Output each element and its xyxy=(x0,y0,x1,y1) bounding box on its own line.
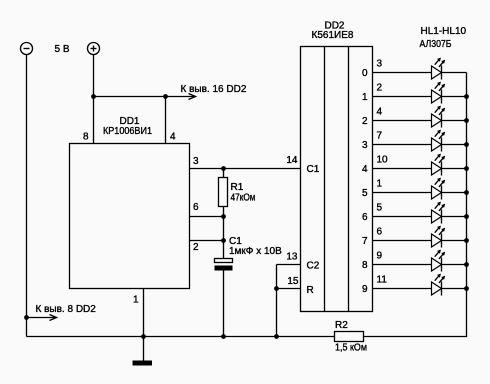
output 1 row wire (pin 2) xyxy=(373,96,432,98)
node junction LED9 bus xyxy=(464,262,469,267)
LED HL6 xyxy=(432,178,446,200)
output 5 row wire (pin 1) xyxy=(373,192,432,194)
svg-text:2: 2 xyxy=(377,83,383,94)
wire bottom ground bus xyxy=(27,336,335,338)
LED HL1 xyxy=(432,58,446,80)
wire LED cathode bus vertical xyxy=(364,73,467,337)
svg-text:13: 13 xyxy=(286,252,298,263)
svg-text:1,5 кОм: 1,5 кОм xyxy=(335,343,367,354)
node junction LED3 bus xyxy=(464,118,469,123)
wire arrow to pin 8 DD2 xyxy=(27,315,57,321)
svg-text:1: 1 xyxy=(133,295,139,306)
node junction pin2 C1 top xyxy=(221,238,226,243)
node junction LED8 bus xyxy=(464,238,469,243)
output 3 row wire (pin 7) xyxy=(373,144,432,146)
node junction pin1 ground bus xyxy=(141,334,146,339)
wire plus terminal to top node xyxy=(93,55,95,97)
svg-text:6: 6 xyxy=(193,202,199,213)
svg-text:8: 8 xyxy=(362,260,368,271)
wire pin 6 lead xyxy=(190,216,224,218)
svg-text:8: 8 xyxy=(83,132,89,143)
resistor R1 xyxy=(219,169,228,217)
resistor R2 xyxy=(335,332,364,342)
node junction pin6 R1 bottom xyxy=(221,214,226,219)
wire C2-R to ground bus xyxy=(276,265,278,337)
wire R1 bottom to C1 xyxy=(223,217,225,259)
node junction LED6 bus xyxy=(464,190,469,195)
svg-text:КР1006ВИ1: КР1006ВИ1 xyxy=(103,126,152,137)
node junction LED2 bus xyxy=(464,94,469,99)
wire pin 4 lead xyxy=(165,97,167,144)
svg-text:6: 6 xyxy=(362,212,368,223)
svg-text:2: 2 xyxy=(193,242,199,253)
wire pin 8 lead xyxy=(93,97,95,144)
wire LED1 cathode to bus xyxy=(442,72,467,74)
wire LED5 cathode to bus xyxy=(442,168,467,170)
node junction LED7 bus xyxy=(464,214,469,219)
node junction Vcc pin4 xyxy=(163,94,168,99)
ground symbol xyxy=(133,337,153,366)
LED HL4 xyxy=(432,130,446,152)
svg-text:R: R xyxy=(307,285,314,296)
node junction C2 R xyxy=(274,286,279,291)
node junction Vcc pin8 xyxy=(91,94,96,99)
svg-text:7: 7 xyxy=(377,131,383,142)
svg-text:1мкФ х 10В: 1мкФ х 10В xyxy=(229,246,282,257)
LED HL10 xyxy=(432,274,446,296)
svg-text:3: 3 xyxy=(362,140,368,151)
LED HL8 xyxy=(432,226,446,248)
capacitor C1 polarized xyxy=(215,259,233,337)
svg-text:R2: R2 xyxy=(335,320,348,331)
wire top horizontal Vcc xyxy=(94,96,166,98)
svg-text:HL1-HL10: HL1-HL10 xyxy=(421,26,467,37)
LED HL7 xyxy=(432,202,446,224)
svg-text:0: 0 xyxy=(362,68,368,79)
node junction LED10 bus xyxy=(464,286,469,291)
svg-text:2: 2 xyxy=(362,116,368,127)
svg-text:3: 3 xyxy=(193,156,199,167)
svg-text:К выв. 16 DD2: К выв. 16 DD2 xyxy=(181,84,247,95)
output 2 row wire (pin 4) xyxy=(373,120,432,122)
svg-text:9: 9 xyxy=(362,284,368,295)
svg-text:6: 6 xyxy=(377,227,383,238)
counter chip DD2 K561IE8 (4017) xyxy=(301,47,373,312)
svg-text:9: 9 xyxy=(377,251,383,262)
svg-text:15: 15 xyxy=(287,276,299,287)
svg-text:1: 1 xyxy=(377,179,383,190)
wire pin 13 lead xyxy=(277,264,301,266)
node junction pin3 R1 xyxy=(221,166,226,171)
svg-text:11: 11 xyxy=(377,275,388,286)
wire arrow to pin 16 DD2 xyxy=(166,94,196,100)
LED HL9 xyxy=(432,250,446,272)
wire minus rail left vertical xyxy=(26,55,28,337)
node junction R ground bus xyxy=(274,334,279,339)
node junction left rail arrow xyxy=(24,315,29,320)
wire LED10 cathode to bus xyxy=(442,288,467,290)
node junction LED5 bus xyxy=(464,166,469,171)
svg-text:АЛ307Б: АЛ307Б xyxy=(420,39,452,50)
svg-text:1: 1 xyxy=(362,92,368,103)
wire pin 1 lead xyxy=(143,289,145,337)
svg-text:4: 4 xyxy=(362,164,368,175)
wire LED3 cathode to bus xyxy=(442,120,467,122)
svg-text:К выв. 8 DD2: К выв. 8 DD2 xyxy=(36,304,97,315)
node junction LED4 bus xyxy=(464,142,469,147)
op chip DD1 KR1006VI1 (555 timer) xyxy=(70,144,190,289)
wire LED2 cathode to bus xyxy=(442,96,467,98)
terminal XT1 minus xyxy=(21,43,33,55)
wire LED8 cathode to bus xyxy=(442,240,467,242)
wire LED7 cathode to bus xyxy=(442,216,467,218)
terminal XT2 plus xyxy=(88,43,100,55)
svg-text:3: 3 xyxy=(377,59,383,70)
svg-text:5: 5 xyxy=(362,188,368,199)
svg-text:5: 5 xyxy=(377,203,383,214)
output 0 row wire (pin 3) xyxy=(373,72,432,74)
svg-text:C1: C1 xyxy=(307,164,320,175)
LED HL5 xyxy=(432,154,446,176)
wire pin 2 lead xyxy=(190,240,224,242)
output 4 row wire (pin 10) xyxy=(373,168,432,170)
output 8 row wire (pin 9) xyxy=(373,264,432,266)
wire LED6 cathode to bus xyxy=(442,192,467,194)
wire LED4 cathode to bus xyxy=(442,144,467,146)
output 7 row wire (pin 6) xyxy=(373,240,432,242)
wire LED9 cathode to bus xyxy=(442,264,467,266)
node junction C1 ground bus xyxy=(221,334,226,339)
output 9 row wire (pin 11) xyxy=(373,288,432,290)
svg-text:C2: C2 xyxy=(307,261,320,272)
output 6 row wire (pin 5) xyxy=(373,216,432,218)
svg-text:R1: R1 xyxy=(231,182,244,193)
wire pin 3 lead xyxy=(190,168,301,170)
LED HL2 xyxy=(432,82,446,104)
svg-text:47кОм: 47кОм xyxy=(231,193,256,204)
svg-text:7: 7 xyxy=(362,236,368,247)
svg-text:4: 4 xyxy=(377,107,383,118)
wire pin 15 lead xyxy=(277,288,301,290)
svg-text:5 В: 5 В xyxy=(55,44,70,55)
LED HL3 xyxy=(432,106,446,128)
svg-text:4: 4 xyxy=(170,132,176,143)
svg-text:14: 14 xyxy=(286,155,298,166)
svg-text:К561ИЕ8: К561ИЕ8 xyxy=(312,30,354,41)
svg-text:10: 10 xyxy=(377,155,389,166)
